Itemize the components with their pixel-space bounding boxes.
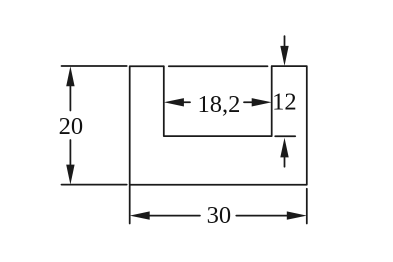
- svg-text:30: 30: [207, 202, 232, 229]
- svg-text:12: 12: [272, 89, 297, 116]
- svg-text:18,2: 18,2: [197, 91, 240, 118]
- svg-text:20: 20: [59, 113, 84, 140]
